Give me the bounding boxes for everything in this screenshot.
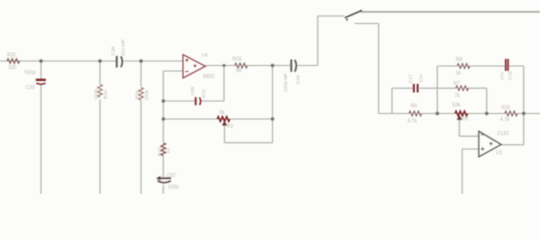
svg-text:R32: R32: [7, 52, 16, 58]
svg-text:100: 100: [8, 65, 17, 71]
svg-text:53k: 53k: [453, 103, 462, 109]
wire C17 R7 row y88: [392, 87, 487, 89]
svg-text:5k: 5k: [220, 110, 226, 116]
node 5k row / output vertical: [271, 117, 274, 120]
wire main row after C38 to op-amp U6 +in: [124, 60, 183, 62]
svg-text:1k: 1k: [166, 148, 172, 154]
svg-text:100u: 100u: [168, 185, 179, 191]
svg-text:R26: R26: [135, 90, 141, 99]
svg-text:8832: 8832: [203, 74, 214, 80]
wire C35 feedback row: [163, 66, 224, 102]
wire P9 wiper to U1 inverting input: [459, 119, 478, 136]
svg-text:C34: C34: [296, 75, 302, 84]
node at R32 output / C39: [39, 59, 43, 63]
switch S1 blade: [345, 10, 362, 17]
op-amp U1 input polarity marks: [481, 135, 493, 151]
capacitor C17 47n: [413, 84, 419, 93]
resistor R34 220k (vertical): [98, 85, 103, 98]
resistor R16 68: [235, 63, 248, 68]
node main row x437: [436, 112, 439, 115]
node at R34: [98, 59, 102, 63]
resistor R7 7k: [456, 86, 469, 91]
svg-text:47n: 47n: [419, 74, 425, 82]
svg-text:220u NP: 220u NP: [283, 73, 289, 92]
svg-text:616: 616: [502, 105, 511, 111]
svg-text:67p: 67p: [201, 89, 207, 97]
switch S1 pivot dot: [346, 19, 348, 21]
wire vertical node x41 to bottom: [40, 61, 42, 194]
op-amp U6 input polarity marks: [185, 59, 196, 72]
resistor R8 1k: [457, 64, 470, 69]
node feedback left C35 row: [162, 99, 165, 102]
node main row x523 output: [522, 112, 525, 115]
wire feedback left vertical x163 down to bottom: [162, 71, 164, 194]
node feedback left 5k row: [162, 117, 165, 120]
junction node dots: [39, 59, 525, 121]
svg-text:220k: 220k: [94, 88, 100, 99]
node main row x486: [485, 112, 488, 115]
node output row / feedback vertical: [271, 64, 274, 67]
capacitor C16 47n: [505, 59, 509, 71]
wire output row after 220u cap to riser: [297, 16, 345, 66]
switch S1 left contact wire: [318, 15, 345, 17]
wire main filter row y113: [379, 113, 540, 115]
wire right vertical x523 output to feedback: [523, 66, 525, 145]
wire vertical node x100 to bottom: [99, 61, 101, 194]
capacitor C34 220u NP (series): [290, 59, 296, 71]
svg-text:R9: R9: [411, 103, 418, 109]
wire R7 right vertical x486: [486, 88, 488, 113]
svg-text:4.7k: 4.7k: [408, 118, 418, 124]
svg-text:7k: 7k: [455, 93, 461, 99]
resistor R26 100k (vertical): [139, 88, 144, 101]
svg-text:U6: U6: [202, 52, 208, 58]
svg-text:P2: P2: [227, 124, 233, 130]
op-amp U6: [183, 55, 205, 78]
wire R8 C16 feedback row y66: [437, 65, 523, 67]
wire switch lower contact to right block riser: [355, 24, 379, 114]
svg-text:22n MP: 22n MP: [121, 39, 127, 56]
potentiometer P2 wiper arrow: [223, 122, 227, 126]
svg-text:R13: R13: [157, 147, 163, 156]
capacitor C35 67p (feedback): [195, 97, 201, 105]
wire P2 wiper down and bottom return: [225, 125, 273, 142]
svg-text:R34: R34: [103, 90, 109, 99]
svg-text:C35: C35: [190, 86, 196, 95]
svg-text:U1: U1: [496, 150, 503, 156]
svg-text:1k: 1k: [456, 70, 462, 76]
capacitor C57 100u (polarized): [156, 176, 171, 183]
wire center vertical x437: [436, 66, 438, 114]
svg-text:R16: R16: [233, 57, 242, 63]
wire output feedback vertical x272: [272, 66, 274, 143]
capacitor C38 22n MP (series): [116, 56, 123, 68]
svg-text:4.7k: 4.7k: [500, 117, 510, 123]
resistor R13 1k (vertical): [161, 143, 166, 156]
node at R26: [139, 59, 143, 63]
svg-text:C38: C38: [111, 46, 117, 55]
wire U6 inverting input from feedback node: [163, 70, 183, 72]
svg-text:C16: C16: [508, 71, 514, 80]
wire U1 output row: [501, 144, 524, 146]
svg-text:500p: 500p: [25, 70, 36, 76]
wire main input row left: [0, 60, 116, 62]
wire U6 output row: [205, 65, 290, 67]
wire U1 non-inverting input and down to bottom: [462, 149, 479, 194]
svg-text:2132: 2132: [497, 131, 509, 137]
svg-text:R7: R7: [454, 81, 461, 87]
wire C17 left vertical: [391, 88, 393, 113]
svg-text:C39: C39: [26, 85, 35, 91]
svg-text:R8: R8: [456, 57, 463, 63]
svg-text:P9: P9: [462, 117, 468, 123]
potentiometer P2 5k: [217, 117, 230, 122]
wire top bus to right edge: [361, 11, 540, 13]
resistor R15 4.7k: [505, 111, 518, 116]
svg-text:68: 68: [236, 68, 242, 74]
svg-text:C57: C57: [167, 173, 176, 179]
svg-text:100k: 100k: [144, 89, 150, 100]
capacitor C39 500p: [36, 79, 46, 85]
wire P2 5k feedback row: [163, 118, 272, 120]
potentiometer P9 53k: [455, 111, 468, 116]
svg-text:47n: 47n: [500, 72, 506, 80]
potentiometer P9 wiper arrow: [458, 116, 462, 119]
resistor R32: [7, 59, 20, 64]
op-amp U1: [479, 131, 501, 157]
resistor R9 4.7k: [409, 111, 422, 116]
svg-text:C17: C17: [408, 74, 414, 83]
wire vertical node x141 to bottom: [140, 61, 142, 194]
node C35 riser on output row: [223, 64, 226, 67]
